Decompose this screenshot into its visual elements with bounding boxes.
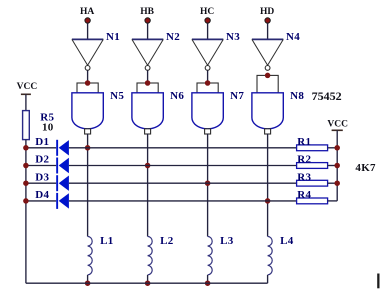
node junction dot at N6 input	[145, 80, 151, 86]
wire R2 to VCC rail	[328, 165, 338, 167]
wire line D3 right segment	[69, 182, 297, 184]
NAND gate N5 body	[72, 93, 103, 129]
NAND gate N6 output pin square	[145, 129, 151, 134]
svg-text:D2: D2	[35, 154, 49, 166]
wire R5 bottom to left rail	[25, 140, 27, 148]
resistor R5	[23, 111, 30, 140]
wire line D1 left segment	[26, 147, 56, 149]
diode D3	[56, 175, 69, 191]
diode D2	[56, 158, 69, 174]
svg-text:N1: N1	[106, 31, 120, 43]
wire N5 output down to coil L1	[87, 134, 89, 237]
diode D4	[56, 193, 69, 209]
power VCC right symbol	[332, 130, 343, 201]
svg-text:VCC: VCC	[17, 82, 38, 92]
node junction dot at N7 input	[205, 80, 211, 86]
wire line D4 left segment	[26, 200, 56, 202]
inverter N1	[72, 39, 103, 65]
svg-text:R2: R2	[297, 154, 311, 166]
svg-text:L4: L4	[280, 235, 294, 247]
node junction dot L3 on bottom bus	[205, 280, 211, 286]
node junction dot L1 on bottom bus	[85, 280, 91, 286]
svg-text:N8: N8	[290, 90, 304, 102]
inverter N3 output bubble	[205, 66, 210, 71]
svg-text:N6: N6	[170, 90, 184, 102]
node junction dot VCC rail R3	[334, 180, 340, 186]
wire N1 bubble to N5 input	[87, 70, 89, 83]
inverter N4 output bubble	[265, 66, 270, 71]
wire line D1 right segment	[69, 147, 297, 149]
NAND gate N5 input box	[77, 83, 98, 93]
svg-text:HB: HB	[140, 7, 154, 17]
node junction dot VCC rail R2	[334, 163, 340, 169]
wire line D4 right segment	[69, 200, 297, 202]
wire HA pin to N1 input	[87, 23, 89, 39]
node junction dot left rail line D2	[23, 163, 29, 169]
node junction dot left rail line D4	[23, 198, 29, 204]
wire N7 output down to coil L3	[207, 134, 209, 237]
node junction dot left rail line D3	[23, 180, 29, 186]
node junction dot at N8 input	[265, 73, 271, 79]
NAND gate N5 output pin square	[85, 129, 91, 134]
NAND gate N8 output pin square	[265, 129, 271, 134]
node junction dot N8 output on line D4	[265, 198, 271, 204]
wire line D2 right segment	[69, 165, 297, 167]
svg-text:N7: N7	[230, 90, 244, 102]
wire HC pin to N3 input	[207, 23, 209, 39]
svg-text:10: 10	[42, 122, 54, 134]
inductor L4	[268, 236, 273, 275]
svg-text:4K7: 4K7	[355, 162, 376, 174]
NAND gate N7 body	[192, 93, 223, 129]
wire N3 bubble to N7 input	[207, 70, 209, 83]
node junction dot L2 on bottom bus	[145, 280, 151, 286]
inverter N2	[132, 39, 163, 65]
inductor L2	[148, 236, 153, 275]
resistor R4	[297, 198, 328, 204]
power VCC left symbol	[21, 94, 31, 110]
wire line D3 left segment	[26, 182, 56, 184]
wire HB pin to N2 input	[147, 23, 149, 39]
node junction dot N6 output on line D2	[145, 163, 151, 169]
resistor R2	[297, 163, 328, 169]
svg-text:N3: N3	[226, 31, 240, 43]
wire N6 output down to coil L2	[147, 134, 149, 237]
inverter N2 output bubble	[145, 66, 150, 71]
svg-text:L2: L2	[160, 235, 174, 247]
inverter N3	[192, 39, 223, 65]
NAND gate N7 input box	[197, 83, 218, 93]
svg-text:R4: R4	[297, 189, 311, 201]
wire R4 to VCC rail	[328, 200, 338, 202]
svg-text:N4: N4	[286, 31, 300, 43]
wire L1 to bottom bus	[87, 275, 89, 283]
diode D1	[56, 140, 69, 156]
svg-text:D4: D4	[35, 189, 49, 201]
node HB input pin	[145, 18, 150, 23]
NAND gate N7 output pin square	[205, 129, 211, 134]
node junction dot N5 output on line D1	[85, 145, 91, 151]
wire R1 to VCC rail	[328, 147, 338, 149]
wire L3 to bottom bus	[207, 275, 209, 283]
svg-text:N5: N5	[110, 90, 124, 102]
svg-text:VCC: VCC	[327, 119, 348, 129]
inverter N4	[252, 39, 283, 65]
node junction dot VCC rail R1	[334, 145, 340, 151]
wire L4 to bottom bus	[267, 275, 269, 283]
wire bottom bus	[26, 282, 268, 284]
svg-text:N2: N2	[166, 31, 180, 43]
svg-text:D3: D3	[35, 171, 49, 183]
node junction dot N7 output on line D3	[205, 180, 211, 186]
wire R3 to VCC rail	[328, 182, 338, 184]
resistor R1	[297, 145, 328, 151]
svg-text:D1: D1	[35, 136, 49, 148]
node HD input pin	[265, 18, 270, 23]
wire line D2 left segment	[26, 165, 56, 167]
svg-text:75452: 75452	[312, 89, 342, 103]
svg-text:R1: R1	[297, 136, 311, 148]
inductor L1	[88, 236, 93, 275]
inverter N1 output bubble	[85, 66, 90, 71]
wire L2 to bottom bus	[147, 275, 149, 283]
wire N2 bubble to N6 input	[147, 70, 149, 83]
inductor L3	[208, 236, 213, 275]
svg-text:HC: HC	[200, 7, 214, 17]
wire N8 output down to coil L4	[267, 134, 269, 237]
NAND gate N8 input box	[257, 75, 278, 93]
node junction dot at N5 input	[85, 80, 91, 86]
svg-text:HD: HD	[260, 7, 274, 17]
wire HD pin to N4 input	[267, 23, 269, 39]
wire left rail vertical	[25, 148, 27, 283]
stray mark bottom right	[377, 274, 379, 289]
node HA input pin	[85, 18, 90, 23]
svg-text:R3: R3	[297, 171, 311, 183]
NAND gate N8 body	[252, 93, 283, 129]
svg-text:L3: L3	[220, 235, 234, 247]
resistor R3	[297, 180, 328, 186]
NAND gate N6 body	[132, 93, 163, 129]
node HC input pin	[205, 18, 210, 23]
svg-text:L1: L1	[100, 235, 113, 247]
node junction dot left rail line D1	[23, 145, 29, 151]
NAND gate N6 input box	[137, 83, 158, 93]
svg-text:HA: HA	[80, 7, 94, 17]
